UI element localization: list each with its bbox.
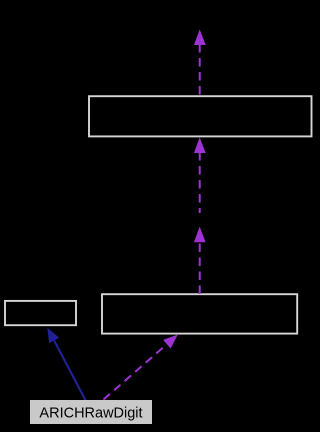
- svg-text:ARICHRawDigit: ARICHRawDigit: [39, 406, 142, 422]
